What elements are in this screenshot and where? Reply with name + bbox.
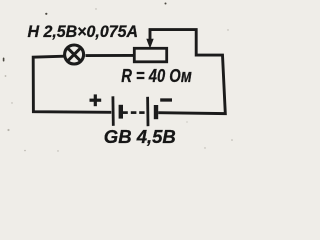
lamp H [65, 45, 84, 64]
battery GB cell 1 long plate (+) [112, 96, 115, 126]
svg-text:GB 4,5В: GB 4,5В [104, 126, 176, 147]
rheostat wiper arrow [146, 39, 153, 49]
wire: top-left horizontal and left vertical and bottom-left to battery [33, 56, 111, 112]
scan noise specks [3, 3, 167, 62]
battery GB cell 2 short plate (-) [154, 105, 158, 119]
battery GB cell 2 long plate [146, 97, 149, 126]
plus polarity mark [90, 94, 102, 106]
battery GB cell 1 short plate [119, 105, 123, 119]
wire: lamp to rheostat left terminal [86, 54, 135, 57]
wire: wiper up, across top, down right side, bottom back to battery [150, 30, 225, 114]
minus polarity mark [160, 98, 172, 101]
svg-text:Н 2,5В×0,075А: Н 2,5В×0,075А [28, 23, 139, 41]
paper background [0, 0, 240, 156]
wire: dashed segment between battery cells [131, 111, 137, 114]
svg-text:R = 40 Ом: R = 40 Ом [121, 66, 192, 86]
wire: battery inter-cell stub [123, 111, 128, 114]
resistor R (rheostat body) [134, 48, 166, 62]
